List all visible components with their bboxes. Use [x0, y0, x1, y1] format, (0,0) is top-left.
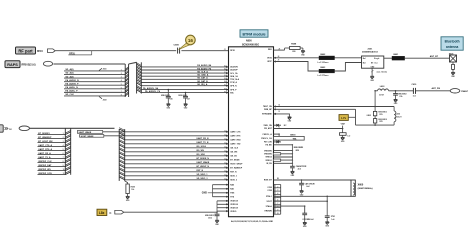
- svg-text:I2S_WS: I2S_WS: [230, 152, 238, 154]
- ground for R699: [126, 196, 131, 202]
- svg-text:C26: C26: [170, 99, 173, 101]
- svg-text:0.56uH: 0.56uH: [396, 116, 402, 118]
- boxed label UART_WAKE: [77, 131, 102, 134]
- capacitor C604: [393, 90, 407, 99]
- filter box GN03: [274, 133, 305, 140]
- note J660: [99, 68, 107, 70]
- svg-text:BT_MODE1: BT_MODE1: [38, 133, 50, 135]
- svg-text:C/COMM 2n2: C/COMM 2n2: [302, 219, 313, 221]
- svg-text:1: 1: [63, 133, 64, 135]
- svg-text:SD_CLK: SD_CLK: [65, 94, 74, 96]
- Bluetooth antenna label: [441, 37, 463, 50]
- no-connect pin 2: [274, 140, 282, 143]
- svg-text:RFIO: RFIO: [230, 50, 235, 52]
- uart fan wires into IC: [103, 130, 229, 181]
- svg-text:C699: C699: [174, 45, 180, 47]
- wire rail B: [274, 108, 356, 113]
- svg-text:1u0: 1u0: [413, 95, 416, 97]
- svg-text:Single: Single: [374, 58, 379, 60]
- no-connect pin 1: [274, 124, 288, 127]
- ground for C631: [303, 223, 308, 229]
- svg-text:I2S_DO: I2S_DO: [230, 156, 237, 158]
- svg-text:RFBUS(31:0): RFBUS(31:0): [22, 64, 36, 66]
- wire PA_AUDIOL_N4: [141, 87, 228, 91]
- svg-text:C27: C27: [187, 99, 190, 101]
- svg-text:MINI-SMD2: MINI-SMD2: [161, 95, 170, 97]
- svg-text:R699: R699: [131, 187, 135, 189]
- svg-text:COM: COM: [267, 187, 272, 189]
- svg-text:10: 10: [63, 169, 65, 171]
- svg-text:2n2: 2n2: [306, 186, 309, 188]
- svg-text:SD_SDIO_1: SD_SDIO_1: [197, 174, 209, 176]
- svg-text:VREG2: VREG2: [265, 157, 271, 159]
- bus riser A2: [65, 128, 70, 175]
- RF input port symbol: [48, 49, 56, 53]
- wire FM_ANT: [274, 127, 343, 129]
- bus riser A1: [125, 64, 128, 97]
- svg-text:16: 16: [188, 38, 194, 43]
- note J668: [99, 97, 107, 102]
- svg-text:SPK_N: SPK_N: [230, 85, 237, 87]
- svg-text:antenna: antenna: [446, 45, 458, 49]
- gnd pin stubs: [213, 184, 229, 198]
- bus bridge 1: [129, 62, 137, 64]
- svg-text:10k: 10k: [131, 189, 134, 191]
- svg-text:SPK_P: SPK_P: [230, 89, 237, 91]
- svg-text:8: 8: [63, 161, 64, 163]
- svg-text:(26MC/26MHz): (26MC/26MHz): [358, 188, 373, 190]
- svg-text:VDDIO: VDDIO: [230, 211, 237, 213]
- svg-text:GN05: GN05: [367, 115, 371, 117]
- svg-text:0R0: 0R0: [296, 150, 299, 152]
- svg-text:3: 3: [121, 77, 122, 79]
- svg-text:RST_N: RST_N: [230, 172, 237, 174]
- ground mid: [288, 117, 293, 123]
- capacitor C631: [302, 205, 313, 222]
- svg-text:2n2: 2n2: [298, 169, 301, 171]
- svg-text:WCP: WCP: [267, 61, 272, 63]
- wire balun to B601: [384, 57, 392, 59]
- wire to FM ant: [416, 87, 450, 91]
- svg-text:R698: R698: [291, 43, 297, 45]
- inductor L606: [394, 107, 402, 126]
- capacitor C612: [205, 212, 220, 220]
- wire FM top: [374, 90, 413, 92]
- svg-text:XTM: XTM: [331, 216, 335, 218]
- svg-text:HOST_WKUP: HOST_WKUP: [230, 164, 243, 166]
- FM port connector (edge): [0, 125, 12, 132]
- svg-text:1u0: 1u0: [331, 219, 334, 221]
- svg-text:RF1U: RF1U: [37, 51, 43, 53]
- svg-text:VDD1U8: VDD1U8: [230, 201, 237, 203]
- IC U600 BCM2048 body: [229, 40, 274, 217]
- audio fan wires into IC: [141, 64, 228, 87]
- arrow marker: [109, 211, 112, 215]
- svg-text:HRDWN: HRDWN: [265, 211, 273, 213]
- svg-text:I2S_WS: I2S_WS: [197, 150, 205, 152]
- svg-text:I2S_SCLK: I2S_SCLK: [197, 146, 207, 148]
- FM antenna oval: [450, 89, 469, 93]
- wire to antenna: [405, 57, 450, 59]
- label GN05: [367, 115, 371, 117]
- svg-text:8: 8: [121, 95, 122, 97]
- bus wire RFBUS: [53, 63, 125, 65]
- wire PA_AUDIOL_P4: [141, 90, 228, 94]
- svg-text:Bluetooth: Bluetooth: [445, 39, 460, 43]
- IC ball map note: [231, 220, 274, 223]
- BTFM module label: [240, 30, 268, 37]
- resistor R699 pulldown: [125, 181, 135, 196]
- net label RF1U on wire: [68, 51, 91, 56]
- svg-text:BT_WKUP_N: BT_WKUP_N: [197, 166, 210, 168]
- L7x bypass cap: [340, 122, 351, 137]
- capacitor C610: [412, 84, 418, 97]
- svg-text:WCN: WCN: [267, 58, 272, 60]
- ground for C628: [300, 191, 305, 197]
- wire RF line: [55, 50, 228, 52]
- GND net label: [202, 192, 213, 194]
- svg-text:XWU_ON: XWU_ON: [263, 125, 272, 127]
- ground for R698: [301, 51, 306, 57]
- svg-text:L=1.375mm: L=1.375mm: [318, 75, 329, 77]
- svg-text:J660: J660: [103, 69, 107, 71]
- svg-text:C612: C612: [208, 217, 212, 219]
- svg-text:BT_MODE: BT_MODE: [230, 160, 240, 162]
- bus riser B1: [137, 62, 142, 93]
- balun Z601: [362, 48, 384, 68]
- svg-text:SDIO_3: SDIO_3: [230, 180, 237, 182]
- svg-text:RF part: RF part: [18, 48, 33, 53]
- svg-text:GND: GND: [202, 192, 207, 194]
- svg-text:0R0: 0R0: [292, 51, 295, 53]
- VREGPA network: [273, 144, 303, 165]
- svg-text:SD_SDIO_3: SD_SDIO_3: [197, 178, 209, 180]
- capacitor C27: [178, 92, 190, 104]
- wire xtal bottom: [274, 195, 352, 197]
- svg-text:L=1.125mm: L=1.125mm: [318, 62, 329, 64]
- vdd pin stubs: [216, 200, 228, 213]
- svg-text:COM: COM: [267, 190, 272, 192]
- svg-text:MINI-SMD2: MINI-SMD2: [205, 215, 214, 217]
- svg-text:FM_CON: FM_CON: [264, 142, 273, 144]
- ground for C612: [215, 220, 220, 226]
- antenna connector X601: [449, 53, 457, 62]
- svg-text:5: 5: [63, 149, 64, 151]
- crystal X600: [351, 180, 373, 196]
- gnd stub pin: [274, 113, 290, 117]
- svg-text:VDD1U8: VDD1U8: [230, 207, 237, 209]
- svg-text:I2SPDIF_CLK: I2SPDIF_CLK: [38, 161, 52, 163]
- svg-text:I2S_CLK: I2S_CLK: [230, 148, 238, 150]
- RAPS block label: [5, 61, 20, 68]
- pin number J1: [224, 49, 226, 51]
- wire xtal top: [274, 178, 352, 180]
- svg-text:RAPS: RAPS: [7, 63, 18, 67]
- svg-text:BT_MODE_N: BT_MODE_N: [197, 158, 210, 160]
- svg-text:MINI-SMD2: MINI-SMD2: [178, 95, 187, 97]
- IC left pin names: [230, 50, 243, 213]
- svg-text:XOUT: XOUT: [267, 201, 273, 203]
- svg-text:BTFM module: BTFM module: [242, 32, 265, 36]
- bus name RFBUS(31:0): [22, 64, 36, 66]
- svg-text:6: 6: [63, 153, 64, 155]
- svg-text:L7x: L7x: [341, 116, 346, 120]
- IC right pin names: [261, 49, 272, 213]
- bus riser B2: [119, 128, 125, 181]
- bus entry oval: [43, 61, 52, 66]
- svg-text:RST_N: RST_N: [197, 170, 204, 172]
- vertical FM branch: [374, 91, 376, 125]
- svg-text:BT_HOST_WK: BT_HOST_WK: [38, 141, 53, 143]
- svg-text:L8x: L8x: [99, 211, 105, 215]
- callout balloon 14: [179, 35, 196, 49]
- right pin number ladder: [274, 185, 281, 215]
- net label RF1U: [37, 51, 43, 53]
- svg-text:FMB_NP: FMB_NP: [264, 109, 273, 111]
- ground for C630: [325, 222, 330, 228]
- left branch wire: [355, 109, 357, 125]
- inductor L603: [378, 86, 389, 96]
- svg-text:7: 7: [63, 157, 64, 159]
- net label ANT_BT: [430, 55, 439, 58]
- RF part block label: [16, 47, 36, 54]
- svg-text:VDD1U8: VDD1U8: [230, 204, 237, 206]
- svg-text:11: 11: [63, 173, 65, 175]
- wire xo: [274, 200, 329, 202]
- svg-text:VREG1: VREG1: [265, 160, 271, 162]
- antenna connector stub: [452, 62, 455, 72]
- boxed label HOST_WAKE: [80, 135, 104, 138]
- group2 net wires with labels: [38, 133, 66, 175]
- bottom rail: [356, 124, 395, 126]
- resistor R698: [274, 43, 303, 53]
- bus wire 2: [30, 127, 115, 129]
- svg-text:1u0: 1u0: [347, 135, 350, 137]
- svg-text:RB1: RB1: [268, 49, 272, 51]
- capacitor C630: [325, 196, 335, 222]
- ground for C27: [184, 104, 189, 110]
- supply port pentagon: [115, 210, 124, 214]
- svg-text:Z601: Z601: [368, 48, 374, 50]
- bus entry oval 2: [19, 126, 29, 131]
- group1 net wires with labels: [64, 68, 125, 96]
- ground for C26: [166, 104, 171, 110]
- svg-text:2: 2: [121, 73, 122, 75]
- svg-text:1: 1: [121, 70, 122, 72]
- capacitor C26: [161, 89, 173, 104]
- svg-text:2: 2: [63, 137, 64, 139]
- wire rail A: [274, 104, 395, 108]
- svg-text:SDIO_1: SDIO_1: [230, 176, 237, 178]
- ground for C604: [394, 100, 399, 106]
- wire WCP: [274, 60, 362, 71]
- capacitor C699: [174, 45, 180, 54]
- svg-text:I2S_SDO: I2S_SDO: [197, 154, 206, 156]
- L7x supply flag: [339, 115, 356, 121]
- ground for bypass: [341, 137, 346, 143]
- svg-text:I2SPDIF_WS: I2SPDIF_WS: [38, 169, 51, 171]
- wire WCN: [274, 55, 362, 59]
- resistor R7B: [373, 119, 386, 124]
- wire 1V8 rail: [124, 211, 217, 213]
- svg-text:9: 9: [63, 165, 64, 167]
- svg-text:L606: L606: [396, 114, 400, 116]
- balun ground: [370, 68, 387, 82]
- ferrite B603: [318, 67, 335, 77]
- svg-text:J1: J1: [224, 49, 226, 51]
- svg-text:J668: J668: [103, 100, 107, 102]
- svg-text:6: 6: [121, 87, 122, 89]
- svg-text:N600: N600: [246, 40, 252, 43]
- ground for X601: [451, 72, 456, 78]
- svg-text:3: 3: [63, 141, 64, 143]
- ferrite B602: [318, 54, 335, 64]
- L8x supply flag: [97, 209, 107, 215]
- svg-text:MINI-SMD2: MINI-SMD2: [294, 147, 303, 149]
- capacitor C615: [290, 165, 307, 172]
- svg-text:ROM_BT: ROM_BT: [264, 180, 273, 182]
- resistor R7A: [373, 111, 386, 116]
- svg-text:X600: X600: [358, 183, 364, 186]
- wire xtala: [274, 206, 305, 213]
- ferrite B601: [392, 54, 405, 60]
- ground for C615: [291, 171, 296, 177]
- svg-text:I2SPDIF_SYN: I2SPDIF_SYN: [38, 173, 52, 175]
- capacitor C628: [299, 179, 315, 190]
- svg-text:7: 7: [121, 91, 122, 93]
- svg-text:5: 5: [121, 84, 122, 86]
